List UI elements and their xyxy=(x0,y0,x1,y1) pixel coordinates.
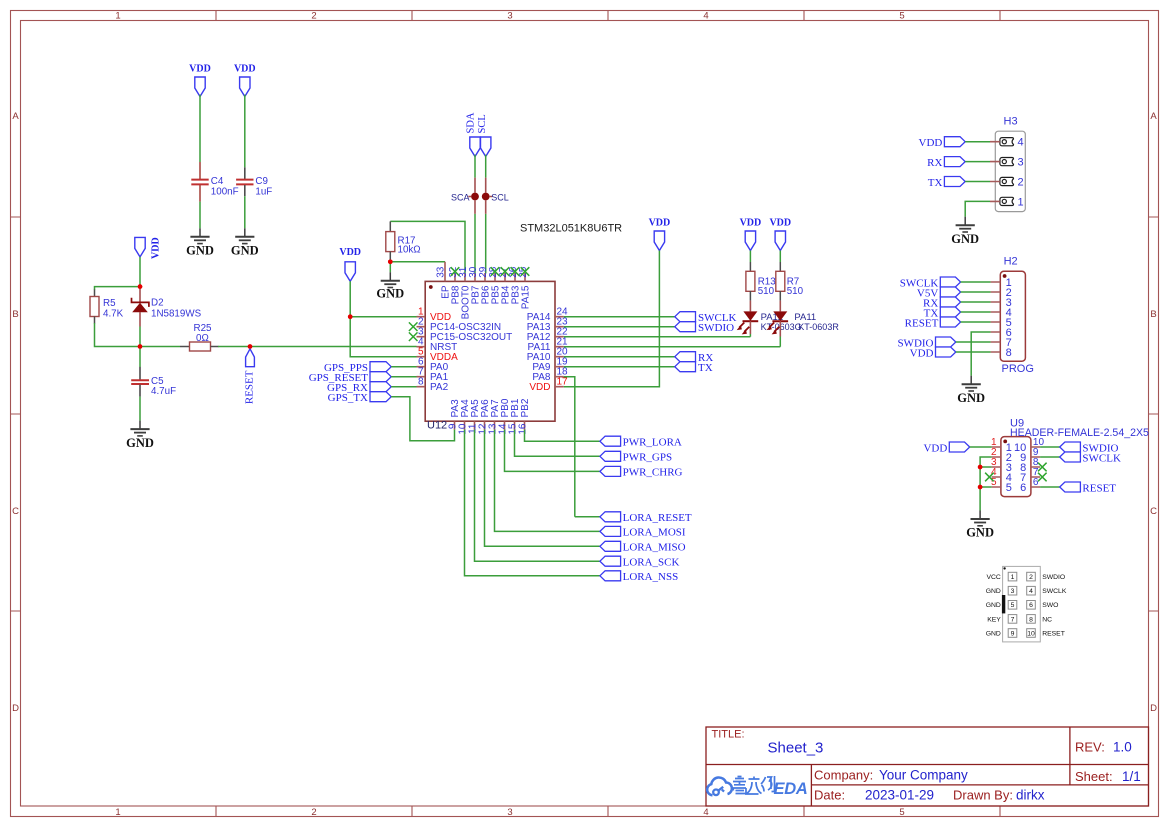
wire node to C5 xyxy=(139,347,141,368)
wire U9.10 to SWDIO xyxy=(1040,446,1060,448)
svg-text:4.7K: 4.7K xyxy=(103,309,124,320)
svg-text:VCC: VCC xyxy=(986,574,1000,581)
power flag VDD (feeds pin17) xyxy=(654,231,664,251)
svg-text:3: 3 xyxy=(507,807,512,818)
svg-text:STM32L051K8U6TR: STM32L051K8U6TR xyxy=(520,223,622,235)
wire node to R5 xyxy=(95,287,141,290)
svg-text:GND: GND xyxy=(986,630,1001,637)
wire C5 to GND xyxy=(139,397,141,421)
wire R25 to NRST pin xyxy=(218,346,417,348)
power flag VDD (net VDD over C4) xyxy=(195,77,205,97)
svg-text:Your Company: Your Company xyxy=(879,768,968,783)
net tag LORA_RESET xyxy=(600,512,692,524)
wire RX to H2.3 xyxy=(961,301,991,303)
net tag GPS_RESET xyxy=(309,372,391,384)
wire TX to H3.2 xyxy=(965,181,990,183)
wire PA6 to LORA_MISO xyxy=(485,430,600,547)
ground under C4 xyxy=(190,228,209,243)
U12 right pin names xyxy=(527,312,551,393)
wire D2 to node xyxy=(139,327,141,347)
pinout square numbers xyxy=(1011,574,1035,637)
svg-text:1N5819WS: 1N5819WS xyxy=(151,309,202,320)
svg-text:SWCLK: SWCLK xyxy=(1082,452,1121,464)
svg-text:RESET: RESET xyxy=(1042,630,1065,637)
net tag RESET (H2.5) xyxy=(905,317,961,329)
U9 pin leads xyxy=(992,447,1041,487)
LED PA12 KT-0603G xyxy=(737,301,802,335)
wire U9.2 to GND rail xyxy=(980,457,992,511)
wire R17 to GND xyxy=(389,262,391,272)
ground under C5 xyxy=(130,421,149,436)
svg-text:8: 8 xyxy=(418,377,424,388)
svg-text:1: 1 xyxy=(115,807,120,818)
wire U9.6 to RESET xyxy=(1040,486,1060,488)
svg-text:RESET: RESET xyxy=(905,317,939,329)
junction dot node VDD-R5-D2 xyxy=(138,284,143,289)
net tag VDD (H3) xyxy=(919,137,966,149)
wire SWCLK to H2.1 xyxy=(961,281,991,283)
title block texts xyxy=(712,729,1141,803)
svg-text:2: 2 xyxy=(1029,574,1033,581)
svg-text:PA15: PA15 xyxy=(521,285,532,309)
junction R17 bottom xyxy=(388,260,393,265)
svg-text:Drawn By:: Drawn By: xyxy=(953,788,1013,803)
svg-text:PWR_LORA: PWR_LORA xyxy=(623,437,682,449)
junction node NRST net xyxy=(138,344,143,349)
no-connect X U9.4 xyxy=(985,473,994,482)
svg-text:H2: H2 xyxy=(1004,256,1018,268)
wire PB2 to PWR_LORA xyxy=(525,430,600,442)
wire SCL down xyxy=(485,155,487,178)
H3 pin 2 socket xyxy=(1000,177,1014,185)
wire RX to H3.3 xyxy=(965,161,990,163)
wire VDD to C9 xyxy=(244,95,246,168)
svg-text:2023-01-29: 2023-01-29 xyxy=(865,788,934,803)
net flag RESET xyxy=(243,349,255,404)
net tag LORA_SCK xyxy=(600,556,680,568)
svg-text:Sheet_3: Sheet_3 xyxy=(768,740,824,757)
net tag VDD (H2.8) xyxy=(910,347,956,359)
ground under R17 xyxy=(381,272,400,287)
connector H2 body xyxy=(1000,256,1034,376)
svg-text:VDD: VDD xyxy=(234,64,256,75)
net tag SWDIO xyxy=(675,322,734,334)
svg-text:4.7uF: 4.7uF xyxy=(151,386,176,397)
wire GPS_PPS to PA0 xyxy=(391,366,416,368)
pinout pin squares col2 xyxy=(1027,572,1036,637)
svg-text:SCL: SCL xyxy=(491,192,509,202)
svg-text:VDD: VDD xyxy=(740,218,762,229)
svg-text:RESET: RESET xyxy=(1082,482,1116,494)
svg-text:EDA: EDA xyxy=(774,780,808,798)
svg-text:Sheet:: Sheet: xyxy=(1075,769,1113,784)
U12 right pin numbers xyxy=(557,307,569,388)
svg-text:VDD: VDD xyxy=(769,218,791,229)
svg-text:LORA_MISO: LORA_MISO xyxy=(623,542,686,554)
H3 pin 3 socket xyxy=(1000,158,1014,166)
svg-text:H3: H3 xyxy=(1004,116,1018,128)
wire VDD to H2.8 xyxy=(956,351,991,353)
wire VDD to U9.1 xyxy=(970,446,992,448)
svg-text:U12: U12 xyxy=(427,420,447,432)
frame row letters left xyxy=(12,111,19,714)
svg-text:2: 2 xyxy=(311,807,316,818)
svg-text:1: 1 xyxy=(115,11,120,22)
svg-text:8: 8 xyxy=(1029,616,1033,623)
svg-text:VDD: VDD xyxy=(649,218,671,229)
U12 bottom pin names xyxy=(450,398,531,417)
wire VDD to H3.4 xyxy=(965,141,990,143)
svg-text:D: D xyxy=(1150,703,1157,714)
power flag VDD (left, rotated label) xyxy=(135,237,145,257)
svg-text:1: 1 xyxy=(1018,196,1024,208)
net tag GPS_RX xyxy=(327,382,391,394)
svg-text:GND: GND xyxy=(231,243,259,257)
logo JLC EDA xyxy=(707,776,807,798)
svg-text:PA2: PA2 xyxy=(430,382,449,393)
wire R5 to bottom node xyxy=(95,323,141,347)
svg-text:C9: C9 xyxy=(255,176,268,187)
svg-text:TX: TX xyxy=(698,362,713,374)
svg-text:VDD: VDD xyxy=(189,64,211,75)
svg-text:2: 2 xyxy=(311,11,316,22)
svg-text:510: 510 xyxy=(758,286,775,297)
wire VDD to C4 xyxy=(199,95,201,162)
svg-text:510: 510 xyxy=(787,286,804,297)
net tag LORA_MOSI xyxy=(600,526,686,538)
svg-text:4: 4 xyxy=(1018,137,1024,149)
svg-text:SCL: SCL xyxy=(477,114,488,133)
capacitor C4 xyxy=(191,162,238,202)
wire PA14 to SWCLK xyxy=(564,316,675,318)
net tag RX xyxy=(675,352,714,364)
svg-text:D: D xyxy=(12,703,19,714)
wire PA10 to RX xyxy=(564,356,675,358)
wire RESET to H2.5 xyxy=(961,321,991,323)
svg-text:1uF: 1uF xyxy=(255,187,272,198)
svg-text:4: 4 xyxy=(703,807,708,818)
resistor R25 0ohm xyxy=(180,323,219,351)
net tag PWR_CHRG xyxy=(600,466,683,478)
diode D2 1N5819WS xyxy=(132,287,202,327)
wire SCL to PB6 xyxy=(485,214,487,274)
svg-text:HEADER-FEMALE-2.54_2X5: HEADER-FEMALE-2.54_2X5 xyxy=(1010,427,1149,439)
wire PA9 to TX xyxy=(564,366,675,368)
U12 left pin stubs xyxy=(417,317,426,387)
svg-text:VDD: VDD xyxy=(910,347,934,359)
net tag V5V (H2.2) xyxy=(917,287,961,299)
svg-text:R5: R5 xyxy=(103,298,116,309)
LED PA11 KT-0603R xyxy=(767,301,840,337)
svg-text:5: 5 xyxy=(899,807,904,818)
junction dot U9 pin3 rail xyxy=(978,465,983,470)
op-amp U12 body xyxy=(425,223,622,432)
resistor R7 xyxy=(776,262,804,301)
svg-text:Date:: Date: xyxy=(814,788,845,803)
wire VDD to pin17 xyxy=(564,251,660,387)
wire LED1 to PA12 row xyxy=(564,334,751,337)
svg-text:GND: GND xyxy=(951,232,979,246)
junction dot VDD pin1 xyxy=(348,314,353,319)
svg-text:1.0: 1.0 xyxy=(1113,740,1132,755)
svg-text:SWCLK: SWCLK xyxy=(1042,588,1067,595)
svg-text:PB2: PB2 xyxy=(520,398,531,417)
svg-text:GND: GND xyxy=(986,588,1001,595)
svg-text:GND: GND xyxy=(376,287,404,301)
ground under U9 xyxy=(971,511,990,526)
junction dot U9 pin5 rail xyxy=(978,485,983,490)
net tag SWDIO (H2.7) xyxy=(897,337,955,349)
net tag TX (H3) xyxy=(928,177,965,189)
wire H2.6 to GND xyxy=(971,332,990,376)
net tag SWCLK (H2.1) xyxy=(900,277,961,289)
wire PA7 to LORA_MOSI xyxy=(495,430,600,532)
U12 right pin stubs xyxy=(555,317,564,387)
junction dot R17-EP xyxy=(388,260,393,265)
net tag TX xyxy=(675,362,713,374)
wire R17 top to BOOT0 pin31 xyxy=(390,221,465,273)
svg-text:LORA_SCK: LORA_SCK xyxy=(623,557,680,569)
wire H3.1 to GND xyxy=(965,201,990,216)
ground under H2 xyxy=(962,376,981,391)
wire TX to H2.4 xyxy=(961,311,991,313)
wire VDD to R13 xyxy=(749,251,751,263)
net tag TX (H2.4) xyxy=(924,307,961,319)
U9 outer pin numbers right xyxy=(1033,437,1045,488)
wire C9 to GND xyxy=(244,196,246,228)
junction node R5/D2 top xyxy=(138,284,143,289)
svg-text:D2: D2 xyxy=(151,298,164,309)
H2 pin numbers xyxy=(1006,277,1012,359)
H3 pin leads xyxy=(990,142,1000,202)
svg-text:A: A xyxy=(1150,111,1157,122)
wire LED2 to PA11 row xyxy=(564,337,781,347)
no-connect X pins 2,3 xyxy=(409,322,418,331)
pinout right labels xyxy=(1042,574,1067,637)
svg-text:5: 5 xyxy=(1006,482,1012,494)
wire PA5 to LORA_SCK xyxy=(475,430,600,562)
svg-text:2: 2 xyxy=(1018,177,1024,189)
svg-text:C: C xyxy=(1150,506,1157,517)
wire PB1 to PWR_GPS xyxy=(515,430,600,457)
svg-text:8: 8 xyxy=(1006,347,1012,359)
wire U9.5 to rail xyxy=(980,486,992,488)
resistor R17 xyxy=(386,221,421,259)
net tag GPS_TX xyxy=(328,392,392,404)
svg-text:5: 5 xyxy=(899,11,904,22)
frame row letters right xyxy=(1150,111,1157,714)
svg-text:SWO: SWO xyxy=(1042,602,1058,609)
svg-text:LORA_RESET: LORA_RESET xyxy=(623,512,692,524)
svg-text:SDA: SDA xyxy=(466,112,477,133)
net tag RX (H2.3) xyxy=(923,297,961,309)
svg-text:A: A xyxy=(12,111,19,122)
wire VDD to R7 xyxy=(779,251,781,263)
svg-text:NC: NC xyxy=(1042,616,1052,623)
U12 top pin names xyxy=(441,285,532,319)
H2 pin leads xyxy=(991,282,1001,352)
U12 left pin numbers xyxy=(418,307,424,388)
header U9 body xyxy=(1001,418,1149,497)
svg-text:dirkx: dirkx xyxy=(1016,788,1045,803)
wire C4 to GND xyxy=(199,202,201,229)
capacitor C9 xyxy=(236,167,272,197)
H3 pin 4 socket xyxy=(1000,138,1014,146)
net flag SDA xyxy=(470,137,480,157)
wire SCA to PB7 xyxy=(474,214,476,274)
svg-text:LORA_NSS: LORA_NSS xyxy=(623,571,679,583)
svg-text:PWR_GPS: PWR_GPS xyxy=(623,452,673,464)
net tag LORA_MISO xyxy=(600,541,686,553)
title block xyxy=(706,727,1149,806)
svg-text:RESET: RESET xyxy=(243,370,255,404)
power flag VDD (over R13) xyxy=(745,231,755,251)
wire R17 to EP pin33 xyxy=(390,260,445,262)
svg-text:LORA_MOSI: LORA_MOSI xyxy=(623,527,686,539)
resistor R13 xyxy=(746,262,776,301)
wire V5V to H2.2 xyxy=(961,291,991,293)
net tag LORA_NSS xyxy=(600,571,678,583)
testpoint SCA xyxy=(451,178,479,214)
svg-text:5: 5 xyxy=(1011,602,1015,609)
pinout left labels xyxy=(986,574,1002,637)
svg-text:VDD: VDD xyxy=(919,137,943,149)
svg-text:RX: RX xyxy=(927,157,942,169)
net tag PWR_LORA xyxy=(600,436,682,448)
wire GPS_RX to PA2 xyxy=(391,386,416,388)
svg-text:C: C xyxy=(12,506,19,517)
net tag SWCLK xyxy=(675,312,737,324)
svg-text:4: 4 xyxy=(1029,588,1033,595)
U12 bottom pin numbers xyxy=(448,423,529,435)
svg-text:33: 33 xyxy=(436,266,447,278)
svg-text:16: 16 xyxy=(518,423,529,435)
wire GPS_RESET to PA1 xyxy=(391,376,416,378)
svg-text:SWDIO: SWDIO xyxy=(698,322,734,334)
svg-text:C4: C4 xyxy=(211,176,224,187)
ground under C9 xyxy=(235,228,254,243)
U12 left pin names xyxy=(430,312,512,393)
wire U9.3 to rail xyxy=(980,466,992,468)
wire PB0 to PWR_CHRG xyxy=(505,430,600,472)
no-connect X pins 32,28,27,26,25 xyxy=(451,267,460,276)
junction dot node NRST net xyxy=(138,344,143,349)
svg-text:Company:: Company: xyxy=(814,768,873,783)
net tag SWCLK (U9.9) xyxy=(1060,452,1121,464)
svg-text:TX: TX xyxy=(928,177,943,189)
svg-text:KEY: KEY xyxy=(987,616,1001,623)
svg-text:REV:: REV: xyxy=(1075,740,1105,755)
wire GPS_TX to PA3 xyxy=(391,397,454,441)
svg-text:GND: GND xyxy=(186,243,214,257)
svg-text:3: 3 xyxy=(1018,157,1024,169)
svg-text:7: 7 xyxy=(1011,616,1015,623)
svg-text:KT-0603R: KT-0603R xyxy=(798,322,839,332)
svg-text:VDD: VDD xyxy=(529,382,550,393)
net tag GPS_PPS xyxy=(324,362,391,374)
svg-text:B: B xyxy=(1150,309,1156,320)
svg-text:VDD: VDD xyxy=(151,237,162,259)
junction dot RESET flag xyxy=(248,344,253,349)
svg-text:VDD: VDD xyxy=(339,247,361,258)
svg-text:SWDIO: SWDIO xyxy=(1042,574,1065,581)
capacitor C5 xyxy=(131,367,176,397)
wire SWDIO to H2.7 xyxy=(956,341,991,343)
U12 top pin stubs (pin33 EP long) xyxy=(445,262,525,282)
resistor R5 xyxy=(90,290,124,324)
svg-text:TITLE:: TITLE: xyxy=(712,729,745,741)
no-connect X U9.7 xyxy=(1038,473,1047,482)
svg-text:KT-0603G: KT-0603G xyxy=(761,322,802,332)
svg-text:GND: GND xyxy=(957,391,985,405)
svg-text:9: 9 xyxy=(1011,630,1015,637)
svg-text:6: 6 xyxy=(1029,602,1033,609)
svg-text:1: 1 xyxy=(1011,574,1015,581)
wire PA4 to LORA_NSS xyxy=(465,430,600,576)
svg-text:3: 3 xyxy=(1011,588,1015,595)
svg-text:3: 3 xyxy=(507,11,512,22)
junction U9.3 xyxy=(978,465,983,470)
U12 bottom pin stubs xyxy=(455,421,525,429)
ground under H3 xyxy=(956,217,975,232)
net tag VDD (U9.1) xyxy=(923,442,969,454)
junction RESET flag xyxy=(248,344,253,349)
wire SDA down xyxy=(474,155,476,178)
svg-text:B: B xyxy=(12,309,18,320)
wire PA8 down to LORA_RESET xyxy=(564,377,600,517)
wire U9.9 to SWCLK xyxy=(1040,456,1060,458)
wire PA13 to SWDIO xyxy=(564,326,675,328)
svg-text:GND: GND xyxy=(966,526,994,540)
svg-text:GND: GND xyxy=(126,436,154,450)
net tag RESET (U9.6) xyxy=(1060,482,1117,494)
power flag VDD (over C9) xyxy=(240,77,250,97)
wire node to R25 xyxy=(140,346,180,348)
testpoint SCL xyxy=(482,178,509,214)
svg-text:PROG: PROG xyxy=(1002,363,1034,375)
U12 top pin numbers xyxy=(436,266,530,278)
frame column numbers top xyxy=(115,11,904,22)
pinout diagram body xyxy=(1002,566,1040,642)
no-connect X U9.8 xyxy=(1038,463,1047,472)
junction U9.5 xyxy=(978,485,983,490)
U9 inner pin numbers xyxy=(1006,442,1012,494)
svg-text:4: 4 xyxy=(703,11,708,22)
svg-text:6: 6 xyxy=(1020,482,1026,494)
U9 outer pin numbers left xyxy=(991,437,997,488)
svg-text:0Ω: 0Ω xyxy=(196,333,209,344)
svg-text:10kΩ: 10kΩ xyxy=(398,245,421,256)
power flag VDD (over R7) xyxy=(775,231,785,251)
frame column numbers bottom xyxy=(115,807,904,818)
svg-text:1/1: 1/1 xyxy=(1122,769,1141,784)
svg-text:SCA: SCA xyxy=(451,192,470,202)
wire VDD to pin1/pin5 xyxy=(350,281,416,356)
H3 pin 1 socket xyxy=(1000,197,1014,205)
svg-text:GND: GND xyxy=(986,602,1001,609)
connector H3 body xyxy=(995,116,1025,212)
net tag SWDIO (U9.10) xyxy=(1060,442,1119,454)
pinout pin squares col1 xyxy=(1008,572,1017,637)
junction VDD pin1 xyxy=(348,314,353,319)
svg-text:100nF: 100nF xyxy=(211,187,239,198)
net flag SCL xyxy=(481,137,491,157)
power flag VDD (feeds VDD/VDDA pins) xyxy=(345,262,355,282)
svg-text:VDD: VDD xyxy=(923,442,947,454)
net tag PWR_GPS xyxy=(600,451,672,463)
svg-text:GPS_TX: GPS_TX xyxy=(328,392,368,404)
wire VDD down to node xyxy=(139,257,141,287)
